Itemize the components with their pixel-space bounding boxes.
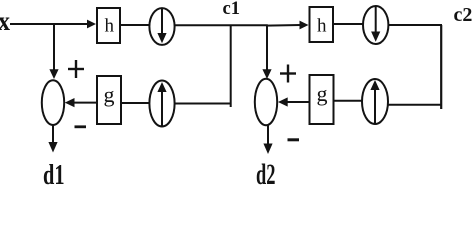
upsampler U1 circle bbox=[149, 81, 174, 127]
wire: branch down to adder S2 bbox=[266, 25, 268, 71]
down arrow inside D1 bbox=[161, 9, 163, 34]
svg-text:h: h bbox=[317, 16, 327, 37]
svg-text:h: h bbox=[105, 16, 115, 37]
upsampler U2 circle bbox=[362, 79, 388, 124]
arrowhead into h1 bbox=[87, 20, 96, 29]
arrowhead to d1 bbox=[48, 142, 57, 153]
wire: feedback to upsampler U1 bbox=[175, 103, 231, 105]
down arrow inside D2 bbox=[375, 7, 377, 33]
adder S2 circle bbox=[255, 79, 277, 125]
wire: U2 to filter g2 bbox=[334, 100, 363, 102]
wire: g1 to adder S1 bbox=[74, 102, 98, 104]
adder S1 circle bbox=[42, 80, 64, 125]
plus sign at adder S1 bbox=[68, 60, 84, 78]
svg-text:g: g bbox=[104, 82, 115, 107]
arrowhead into adder S1 right bbox=[65, 98, 75, 107]
up arrow inside U1 bbox=[161, 91, 163, 126]
filter box h1 bbox=[97, 8, 120, 43]
minus sign at adder S2 bbox=[288, 138, 300, 141]
wire: U1 to filter g1 bbox=[121, 102, 150, 104]
wire: D2 to right corner bbox=[388, 24, 442, 26]
wire: g2 to adder S2 bbox=[287, 101, 310, 103]
svg-text:x: x bbox=[0, 6, 10, 36]
arrowhead to d2 bbox=[263, 144, 272, 155]
wire: S1 down to d1 bbox=[52, 125, 54, 144]
svg-text:c2: c2 bbox=[454, 4, 473, 26]
svg-text:d1: d1 bbox=[43, 160, 65, 189]
wire: h2 to downsampler D2 bbox=[333, 23, 364, 25]
svg-text:c1: c1 bbox=[223, 0, 241, 19]
wire: branch to filter h2 bbox=[266, 24, 301, 27]
minus sign at adder S1 bbox=[75, 125, 87, 128]
wire: h1 to downsampler D1 bbox=[120, 24, 150, 26]
wire: c1 drop down to feedback row 1 bbox=[230, 25, 232, 107]
wire: D1 to branch node bbox=[175, 24, 268, 26]
downsampler D1 circle bbox=[149, 8, 174, 45]
wire: right side drop down bbox=[440, 25, 442, 109]
arrowhead into adder S2 top bbox=[262, 69, 271, 79]
arrowhead into adder S1 top bbox=[49, 69, 58, 79]
arrowhead into h2 bbox=[300, 21, 309, 30]
filter box h2 bbox=[310, 7, 334, 42]
filter box g1 bbox=[97, 76, 121, 124]
svg-text:g: g bbox=[317, 81, 328, 106]
wire: S2 down to d2 bbox=[267, 125, 269, 145]
wire: feedback to upsampler U2 bbox=[388, 104, 441, 106]
downsampler D2 circle bbox=[363, 6, 388, 44]
up arrow inside U2 bbox=[374, 89, 376, 123]
filter box g2 bbox=[310, 75, 334, 124]
wire: branch down to adder S1 bbox=[53, 24, 55, 71]
wire: x to filter h1 bbox=[10, 23, 89, 25]
svg-text:d2: d2 bbox=[256, 158, 276, 189]
plus sign at adder S2 bbox=[280, 65, 296, 83]
arrowhead into adder S2 right bbox=[278, 97, 288, 106]
